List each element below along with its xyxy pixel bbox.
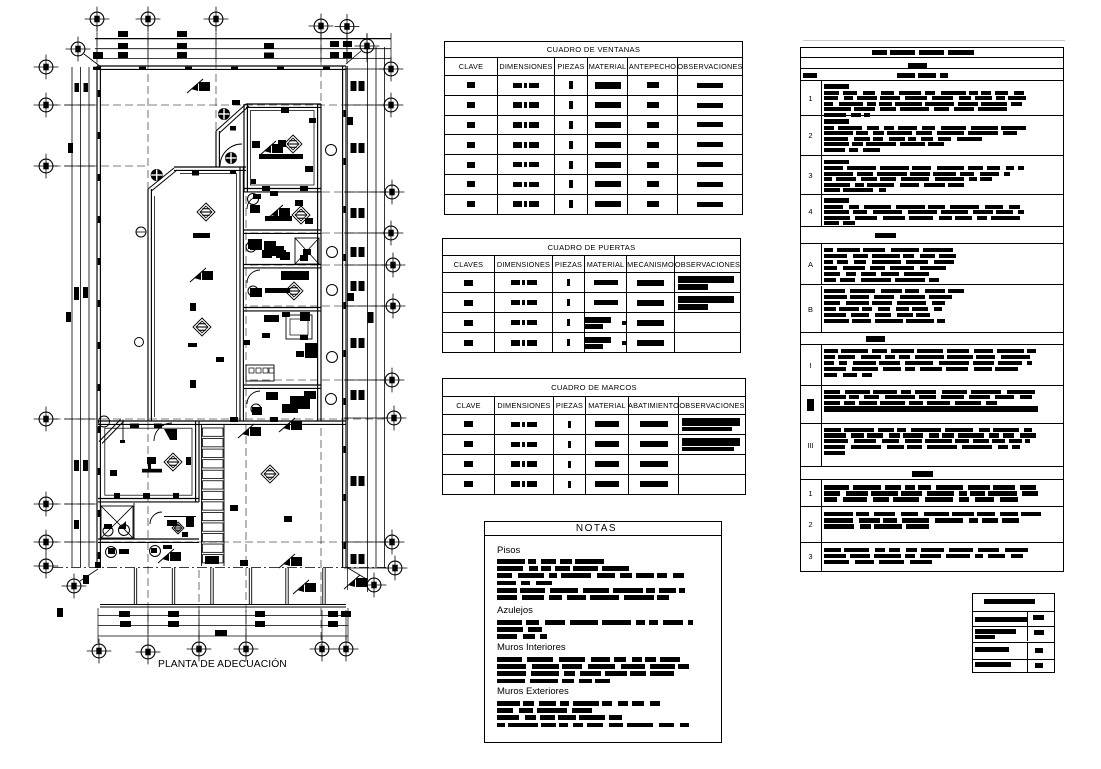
leader mark bbox=[242, 428, 249, 436]
leader mark bbox=[283, 422, 290, 430]
leader mark bbox=[264, 145, 271, 153]
door arcs bbox=[220, 144, 242, 166]
leader mark bbox=[162, 553, 169, 561]
leader mark bbox=[191, 83, 198, 91]
leader mark bbox=[194, 272, 201, 280]
fixtures bbox=[226, 153, 237, 164]
finish diamonds bbox=[284, 135, 302, 153]
leader mark bbox=[283, 558, 290, 566]
leader mark bbox=[271, 209, 278, 217]
leader mark bbox=[348, 579, 355, 587]
dimension lines top bbox=[95, 38, 391, 40]
stair bbox=[201, 425, 203, 566]
room inner outlines bbox=[155, 174, 237, 418]
grid lines bbox=[96, 26, 98, 64]
dimension lines right bbox=[347, 66, 349, 590]
leader mark bbox=[297, 584, 304, 592]
interior walls bbox=[147, 189, 149, 421]
porch bbox=[100, 604, 346, 606]
outer walls bbox=[97, 65, 346, 67]
dimension lines bottom bbox=[98, 615, 348, 617]
leader lines bbox=[84, 54, 101, 67]
room marks bbox=[259, 154, 303, 159]
dimension lines left bbox=[71, 67, 73, 567]
grid bubbles bbox=[85, 7, 110, 32]
